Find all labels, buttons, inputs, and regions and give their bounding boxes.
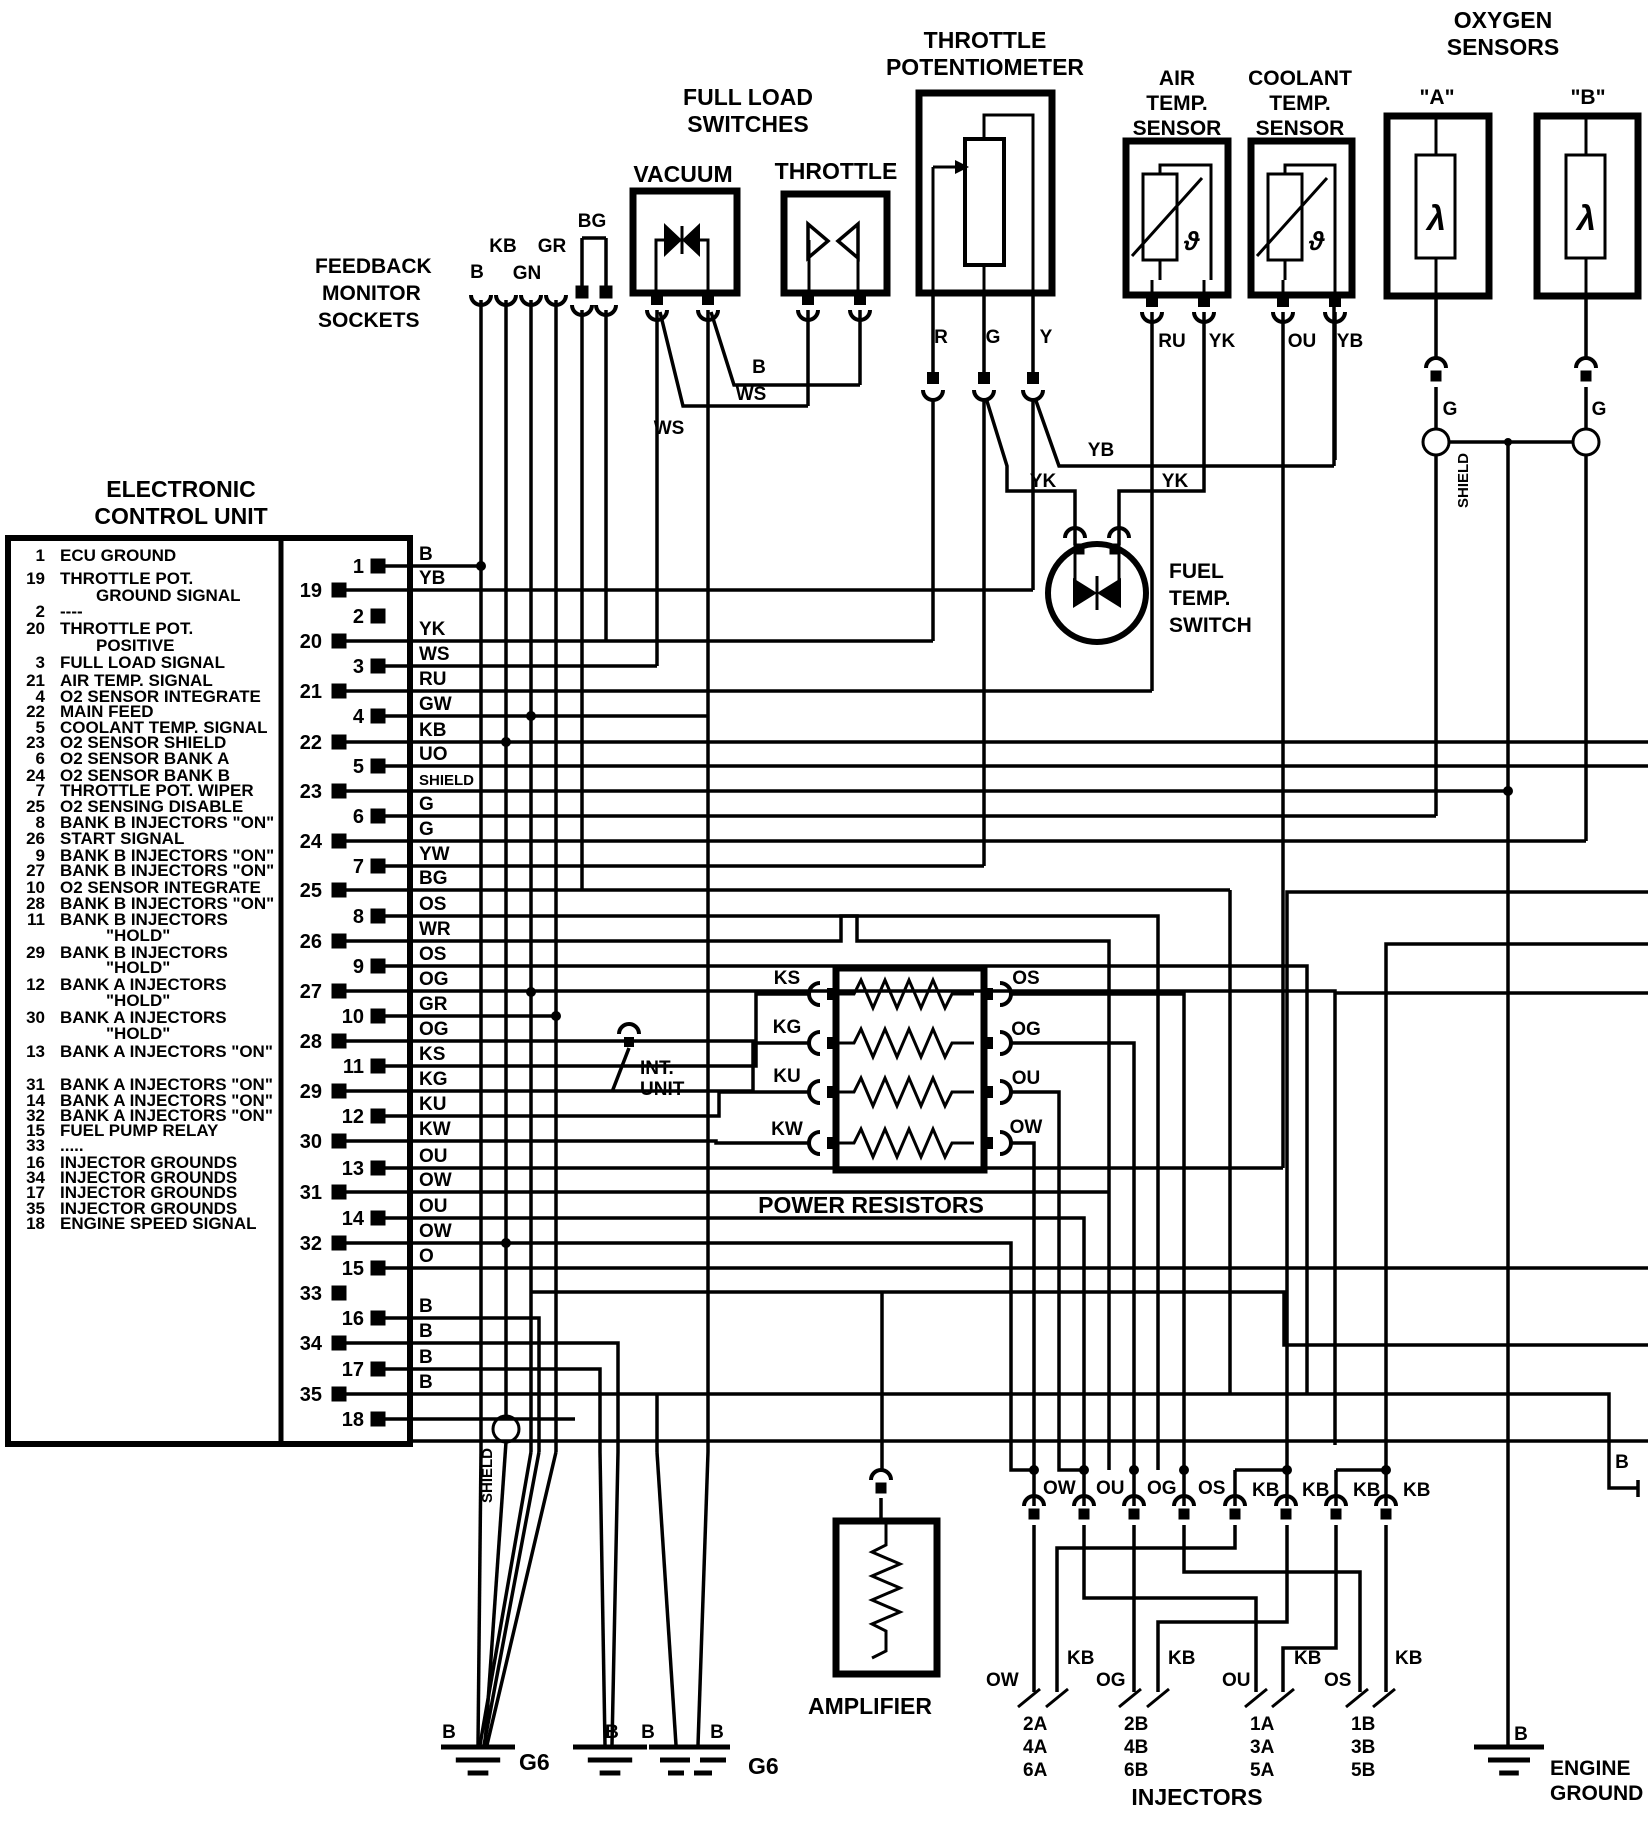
svg-text:BG: BG bbox=[578, 211, 607, 232]
svg-text:KB: KB bbox=[1403, 1480, 1430, 1501]
svg-text:2A: 2A bbox=[1023, 1714, 1048, 1735]
svg-text:λ: λ bbox=[1425, 200, 1446, 238]
svg-text:KS: KS bbox=[419, 1044, 445, 1065]
svg-text:4: 4 bbox=[353, 706, 365, 728]
svg-text:SENSOR: SENSOR bbox=[1133, 117, 1222, 140]
svg-text:B: B bbox=[419, 1321, 433, 1342]
svg-text:5A: 5A bbox=[1250, 1760, 1275, 1781]
svg-text:25: 25 bbox=[300, 880, 322, 902]
svg-text:λ: λ bbox=[1575, 200, 1596, 238]
svg-text:Y: Y bbox=[1040, 327, 1053, 348]
svg-text:KB: KB bbox=[1168, 1648, 1195, 1669]
svg-text:FUEL: FUEL bbox=[1169, 560, 1224, 583]
svg-text:TEMP.: TEMP. bbox=[1169, 587, 1230, 610]
svg-text:G: G bbox=[1443, 399, 1458, 420]
svg-text:KU: KU bbox=[419, 1094, 446, 1115]
svg-text:7: 7 bbox=[353, 856, 364, 878]
svg-text:16: 16 bbox=[342, 1308, 364, 1330]
svg-text:ELECTRONIC: ELECTRONIC bbox=[106, 476, 256, 502]
svg-text:YB: YB bbox=[419, 568, 445, 589]
svg-text:KB: KB bbox=[1067, 1648, 1094, 1669]
svg-text:23: 23 bbox=[300, 781, 322, 803]
svg-text:3B: 3B bbox=[1351, 1737, 1375, 1758]
svg-text:22: 22 bbox=[300, 732, 322, 754]
svg-text:KB: KB bbox=[489, 236, 516, 257]
svg-text:32: 32 bbox=[300, 1233, 322, 1255]
svg-text:KB: KB bbox=[1302, 1480, 1329, 1501]
svg-text:B: B bbox=[442, 1722, 456, 1743]
svg-text:10: 10 bbox=[342, 1006, 364, 1028]
svg-text:20: 20 bbox=[300, 631, 322, 653]
svg-text:R: R bbox=[934, 327, 948, 348]
svg-text:YK: YK bbox=[1030, 471, 1057, 492]
svg-text:G6: G6 bbox=[519, 1749, 550, 1775]
svg-text:G: G bbox=[419, 819, 434, 840]
svg-text:AMPLIFIER: AMPLIFIER bbox=[808, 1693, 932, 1719]
svg-text:WR: WR bbox=[419, 919, 451, 940]
svg-text:COOLANT: COOLANT bbox=[1248, 67, 1352, 90]
svg-text:YK: YK bbox=[1209, 331, 1236, 352]
svg-text:KB: KB bbox=[1395, 1648, 1422, 1669]
svg-text:6A: 6A bbox=[1023, 1760, 1048, 1781]
svg-text:OW: OW bbox=[419, 1170, 452, 1191]
svg-text:29: 29 bbox=[26, 943, 45, 962]
svg-text:5: 5 bbox=[353, 756, 364, 778]
svg-text:11: 11 bbox=[27, 910, 45, 929]
svg-text:G6: G6 bbox=[748, 1753, 779, 1779]
svg-text:"A": "A" bbox=[1419, 86, 1454, 109]
svg-text:POWER RESISTORS: POWER RESISTORS bbox=[758, 1192, 984, 1218]
svg-text:RU: RU bbox=[1158, 331, 1185, 352]
svg-text:KB: KB bbox=[419, 720, 446, 741]
svg-text:B: B bbox=[419, 1372, 433, 1393]
svg-text:YK: YK bbox=[419, 619, 446, 640]
svg-text:B: B bbox=[419, 544, 433, 565]
svg-text:UNIT: UNIT bbox=[640, 1079, 685, 1100]
svg-text:OW: OW bbox=[419, 1221, 452, 1242]
svg-text:FULL LOAD: FULL LOAD bbox=[683, 84, 813, 110]
svg-text:OG: OG bbox=[419, 969, 449, 990]
svg-text:SENSOR: SENSOR bbox=[1256, 117, 1345, 140]
svg-text:CONTROL UNIT: CONTROL UNIT bbox=[94, 503, 267, 529]
svg-text:FEEDBACK: FEEDBACK bbox=[315, 255, 432, 278]
svg-text:OW: OW bbox=[1010, 1117, 1043, 1138]
svg-text:24: 24 bbox=[300, 831, 323, 853]
svg-text:GROUND: GROUND bbox=[1550, 1782, 1643, 1805]
svg-text:THROTTLE: THROTTLE bbox=[775, 158, 898, 184]
svg-text:YB: YB bbox=[1337, 331, 1363, 352]
svg-text:12: 12 bbox=[342, 1106, 364, 1128]
svg-text:KB: KB bbox=[1294, 1648, 1321, 1669]
svg-text:SHIELD: SHIELD bbox=[419, 772, 474, 789]
svg-text:"HOLD": "HOLD" bbox=[106, 1024, 170, 1043]
svg-text:34: 34 bbox=[300, 1333, 323, 1355]
svg-text:WS: WS bbox=[419, 644, 450, 665]
svg-text:2: 2 bbox=[353, 606, 364, 628]
svg-text:SHIELD: SHIELD bbox=[1455, 453, 1472, 508]
svg-text:OG: OG bbox=[1096, 1670, 1126, 1691]
svg-text:ECU GROUND: ECU GROUND bbox=[60, 546, 176, 565]
svg-text:UO: UO bbox=[419, 744, 448, 765]
svg-text:B: B bbox=[1514, 1724, 1528, 1745]
svg-text:ϑ: ϑ bbox=[1308, 226, 1325, 256]
svg-text:B: B bbox=[752, 357, 766, 378]
svg-text:G: G bbox=[986, 327, 1001, 348]
svg-text:TEMP.: TEMP. bbox=[1269, 92, 1330, 115]
svg-text:INT.: INT. bbox=[640, 1058, 674, 1079]
svg-text:KU: KU bbox=[773, 1066, 800, 1087]
svg-text:4B: 4B bbox=[1124, 1737, 1148, 1758]
svg-text:21: 21 bbox=[300, 681, 322, 703]
svg-text:11: 11 bbox=[343, 1056, 364, 1078]
svg-text:O: O bbox=[419, 1246, 434, 1267]
svg-text:GW: GW bbox=[419, 694, 452, 715]
svg-text:28: 28 bbox=[300, 1031, 322, 1053]
svg-text:26: 26 bbox=[300, 931, 322, 953]
svg-text:OU: OU bbox=[419, 1146, 448, 1167]
svg-text:13: 13 bbox=[26, 1042, 45, 1061]
svg-text:KW: KW bbox=[771, 1119, 803, 1140]
svg-text:18: 18 bbox=[26, 1214, 45, 1233]
svg-text:ENGINE: ENGINE bbox=[1550, 1757, 1631, 1780]
svg-text:20: 20 bbox=[26, 619, 45, 638]
svg-text:MONITOR: MONITOR bbox=[322, 282, 421, 305]
svg-text:OXYGEN: OXYGEN bbox=[1454, 7, 1552, 33]
svg-text:19: 19 bbox=[300, 580, 322, 602]
svg-text:6: 6 bbox=[353, 806, 364, 828]
svg-text:POTENTIOMETER: POTENTIOMETER bbox=[886, 54, 1084, 80]
svg-text:OU: OU bbox=[1096, 1478, 1125, 1499]
svg-text:OS: OS bbox=[1012, 968, 1039, 989]
svg-text:SWITCH: SWITCH bbox=[1169, 614, 1252, 637]
svg-text:G: G bbox=[419, 794, 434, 815]
svg-text:3: 3 bbox=[36, 653, 45, 672]
svg-text:B: B bbox=[470, 262, 484, 283]
svg-text:FUEL PUMP RELAY: FUEL PUMP RELAY bbox=[60, 1121, 219, 1140]
svg-text:KG: KG bbox=[773, 1017, 802, 1038]
svg-text:2B: 2B bbox=[1124, 1714, 1148, 1735]
svg-text:THROTTLE: THROTTLE bbox=[924, 27, 1047, 53]
svg-text:5B: 5B bbox=[1351, 1760, 1375, 1781]
svg-text:OS: OS bbox=[1324, 1670, 1351, 1691]
svg-text:13: 13 bbox=[342, 1158, 364, 1180]
svg-text:B: B bbox=[641, 1722, 655, 1743]
svg-text:1: 1 bbox=[36, 546, 45, 565]
svg-text:SOCKETS: SOCKETS bbox=[318, 309, 420, 332]
svg-text:1B: 1B bbox=[1351, 1714, 1375, 1735]
svg-text:B: B bbox=[710, 1722, 724, 1743]
svg-text:RU: RU bbox=[419, 669, 446, 690]
svg-text:GN: GN bbox=[513, 263, 542, 284]
svg-text:B: B bbox=[1615, 1452, 1629, 1473]
svg-text:BG: BG bbox=[419, 868, 448, 889]
svg-text:FULL LOAD SIGNAL: FULL LOAD SIGNAL bbox=[60, 653, 225, 672]
svg-text:GR: GR bbox=[419, 994, 448, 1015]
svg-text:30: 30 bbox=[26, 1008, 45, 1027]
svg-text:17: 17 bbox=[342, 1359, 364, 1381]
svg-text:YB: YB bbox=[1088, 440, 1114, 461]
svg-text:G: G bbox=[1592, 399, 1607, 420]
svg-text:INJECTORS: INJECTORS bbox=[1131, 1784, 1262, 1810]
svg-text:GR: GR bbox=[538, 236, 567, 257]
svg-text:6B: 6B bbox=[1124, 1760, 1148, 1781]
svg-text:3: 3 bbox=[353, 656, 364, 678]
svg-text:BANK A INJECTORS "ON": BANK A INJECTORS "ON" bbox=[60, 1042, 273, 1061]
svg-text:27: 27 bbox=[300, 981, 322, 1003]
svg-text:OG: OG bbox=[1011, 1019, 1041, 1040]
svg-text:3A: 3A bbox=[1250, 1737, 1275, 1758]
svg-text:12: 12 bbox=[26, 975, 45, 994]
svg-text:SENSORS: SENSORS bbox=[1447, 34, 1559, 60]
svg-text:YW: YW bbox=[419, 844, 450, 865]
svg-text:30: 30 bbox=[300, 1131, 322, 1153]
svg-text:8: 8 bbox=[353, 906, 364, 928]
svg-text:ϑ: ϑ bbox=[1183, 226, 1200, 256]
svg-text:OW: OW bbox=[1043, 1478, 1076, 1499]
svg-text:OS: OS bbox=[419, 944, 446, 965]
svg-text:OU: OU bbox=[1222, 1670, 1251, 1691]
svg-text:29: 29 bbox=[300, 1081, 322, 1103]
svg-text:18: 18 bbox=[342, 1409, 364, 1431]
svg-text:B: B bbox=[419, 1347, 433, 1368]
svg-text:ENGINE SPEED SIGNAL: ENGINE SPEED SIGNAL bbox=[60, 1214, 256, 1233]
svg-text:AIR: AIR bbox=[1159, 67, 1195, 90]
svg-text:OU: OU bbox=[1288, 331, 1317, 352]
svg-text:"B": "B" bbox=[1570, 86, 1605, 109]
svg-text:19: 19 bbox=[26, 569, 45, 588]
svg-text:KW: KW bbox=[419, 1119, 451, 1140]
svg-text:OU: OU bbox=[419, 1196, 448, 1217]
svg-text:YK: YK bbox=[1162, 471, 1189, 492]
svg-text:OW: OW bbox=[986, 1670, 1019, 1691]
svg-text:OG: OG bbox=[419, 1019, 449, 1040]
svg-text:KB: KB bbox=[1353, 1480, 1380, 1501]
svg-text:OG: OG bbox=[1147, 1478, 1177, 1499]
svg-text:33: 33 bbox=[300, 1283, 322, 1305]
svg-text:GROUND SIGNAL: GROUND SIGNAL bbox=[96, 586, 241, 605]
svg-text:35: 35 bbox=[300, 1384, 322, 1406]
svg-text:KB: KB bbox=[1252, 1480, 1279, 1501]
svg-text:VACUUM: VACUUM bbox=[633, 161, 732, 187]
svg-text:14: 14 bbox=[342, 1208, 365, 1230]
svg-text:TEMP.: TEMP. bbox=[1146, 92, 1207, 115]
svg-text:SHIELD: SHIELD bbox=[479, 1448, 496, 1503]
svg-text:1: 1 bbox=[353, 556, 364, 578]
svg-text:9: 9 bbox=[353, 956, 364, 978]
svg-text:OU: OU bbox=[1012, 1068, 1041, 1089]
svg-text:WS: WS bbox=[736, 384, 767, 405]
svg-text:B: B bbox=[605, 1722, 619, 1743]
svg-text:15: 15 bbox=[342, 1258, 364, 1280]
svg-text:1A: 1A bbox=[1250, 1714, 1275, 1735]
svg-text:31: 31 bbox=[300, 1182, 322, 1204]
svg-text:WS: WS bbox=[654, 418, 685, 439]
svg-text:KG: KG bbox=[419, 1069, 448, 1090]
svg-text:SWITCHES: SWITCHES bbox=[687, 111, 808, 137]
svg-text:OS: OS bbox=[1198, 1478, 1225, 1499]
svg-text:4A: 4A bbox=[1023, 1737, 1048, 1758]
svg-text:B: B bbox=[419, 1296, 433, 1317]
svg-text:OS: OS bbox=[419, 894, 446, 915]
svg-text:KS: KS bbox=[774, 968, 800, 989]
